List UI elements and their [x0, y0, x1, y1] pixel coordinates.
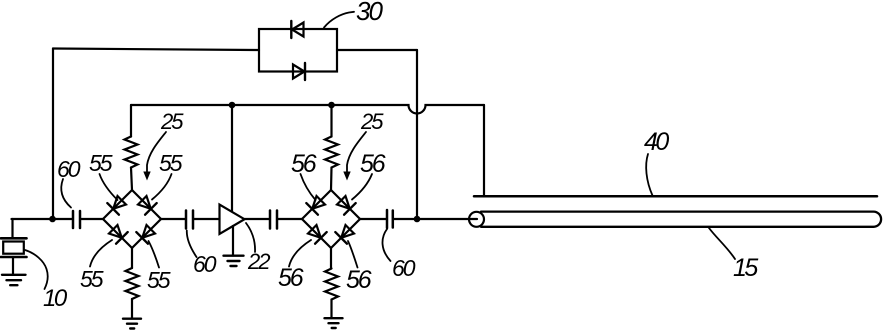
diode D-bottom in box 30	[293, 63, 305, 80]
diode 56 NW	[306, 194, 326, 214]
transmission line 40 top conductor	[474, 195, 877, 198]
leader for 10	[25, 250, 48, 289]
svg-text:56: 56	[291, 150, 317, 178]
leader 55 lower-left	[90, 240, 112, 267]
transmission line 15 tube body	[481, 212, 881, 227]
wire R2 to ground	[131, 299, 133, 319]
svg-text:56: 56	[278, 264, 304, 292]
wire C4 to transmission line	[393, 218, 477, 220]
svg-text:15: 15	[733, 254, 758, 282]
svg-text:40: 40	[644, 128, 669, 156]
wire amp to ground	[232, 226, 234, 256]
svg-text:55: 55	[80, 266, 104, 292]
svg-text:55: 55	[147, 267, 171, 293]
resistor R4 bottom of bridge 2	[325, 269, 338, 300]
svg-text:30: 30	[356, 0, 383, 26]
svg-text:55: 55	[159, 150, 183, 176]
diode 56 SE	[335, 223, 355, 243]
bias bus horizontal with hop	[131, 105, 484, 114]
diode D-top in box 30	[291, 21, 303, 38]
capacitor C2 (60)	[186, 211, 193, 229]
leader 56 lower-right	[348, 241, 358, 268]
wire C1 to bridge 1	[81, 218, 104, 220]
resistor R1 (25) top of bridge 1	[125, 137, 138, 168]
leader arrow for 25 right	[343, 132, 366, 181]
node bus dot R3	[328, 102, 335, 109]
svg-text:55: 55	[89, 150, 113, 176]
wire crystal to ground	[12, 257, 14, 275]
ground under bridge 2	[325, 318, 343, 328]
wire bus down to TL top conductor	[483, 105, 485, 196]
node junction dot left	[49, 216, 56, 223]
leader 55 upper-right	[152, 174, 172, 200]
capacitor C3	[270, 211, 277, 229]
wire bridge 2 right to C4	[360, 218, 387, 220]
diode 55 SE	[136, 223, 156, 243]
wire R4 to ground	[330, 300, 332, 319]
crystal Y1 (10)	[1, 238, 27, 257]
wire R1 to bridge 1 top	[131, 168, 132, 191]
diode 55 NW	[107, 194, 127, 214]
bridge ring 2 diamond	[302, 190, 360, 248]
wire box 30 output to right riser	[337, 49, 417, 51]
wire main line left segment	[12, 218, 73, 220]
wire C2 to amp	[194, 218, 220, 220]
leader 56 upper-left	[301, 174, 316, 200]
diode 56 NE	[335, 194, 355, 214]
wire C3 to bridge 2	[278, 218, 303, 220]
diode box 30 outline	[259, 29, 337, 72]
resistor R3 (25) top of bridge 2	[325, 137, 338, 168]
svg-text:60: 60	[392, 255, 416, 281]
bridge ring 1 diamond	[103, 190, 161, 248]
ground under crystal	[2, 275, 26, 285]
svg-text:10: 10	[43, 285, 68, 312]
wire top horizontal to diode box	[53, 49, 259, 51]
wire bias to amp top	[231, 105, 233, 212]
ground under bridge 1	[123, 319, 141, 329]
svg-text:60: 60	[193, 251, 217, 277]
wire right riser down to main line	[416, 50, 418, 219]
capacitor C1 (60)	[73, 211, 80, 228]
capacitor C4 (60)	[387, 210, 393, 228]
leader arrow for 25 left	[143, 132, 166, 181]
leader 56 lower-left	[289, 240, 311, 267]
wire left vertical riser	[52, 49, 54, 220]
leader 55 upper-left	[100, 174, 118, 200]
leader 56 upper-right	[352, 174, 372, 200]
wire R3 to bridge 2 top	[330, 168, 333, 191]
leader 55 lower-right	[149, 241, 160, 268]
leader 60 right	[382, 229, 390, 261]
leader 22	[246, 223, 255, 252]
wire bridge 1 bottom to resistor	[131, 248, 133, 268]
diode 55 NE	[136, 194, 156, 214]
diode 56 SW	[306, 223, 326, 243]
ground under amp	[224, 256, 244, 266]
leader 60 middle	[187, 231, 197, 258]
leader 15	[709, 228, 735, 259]
svg-text:56: 56	[346, 266, 372, 294]
resistor R2 bottom of bridge 1	[126, 268, 139, 299]
op-amp U1 (22)	[220, 205, 245, 235]
wire crystal drop	[11, 219, 13, 238]
transmission line 15 tube left end circle	[469, 212, 484, 227]
node bus dot amp	[229, 102, 236, 109]
svg-text:25: 25	[360, 109, 384, 134]
svg-text:25: 25	[160, 109, 184, 134]
svg-text:60: 60	[57, 156, 81, 182]
node junction dot right	[414, 216, 421, 223]
leader for 60 left	[61, 179, 71, 208]
leader for 30	[324, 12, 354, 28]
wire bridge 1 right to C2	[161, 218, 186, 220]
wire bridge 2 bottom to resistor R4	[330, 248, 332, 269]
diode 55 SW	[107, 223, 127, 243]
leader 40	[646, 154, 652, 196]
wire bus left end down to resistor R1	[130, 105, 132, 137]
svg-text:22: 22	[247, 249, 270, 274]
wire amp to C3	[245, 218, 270, 220]
wire bus dot down to resistor R3	[330, 105, 332, 137]
